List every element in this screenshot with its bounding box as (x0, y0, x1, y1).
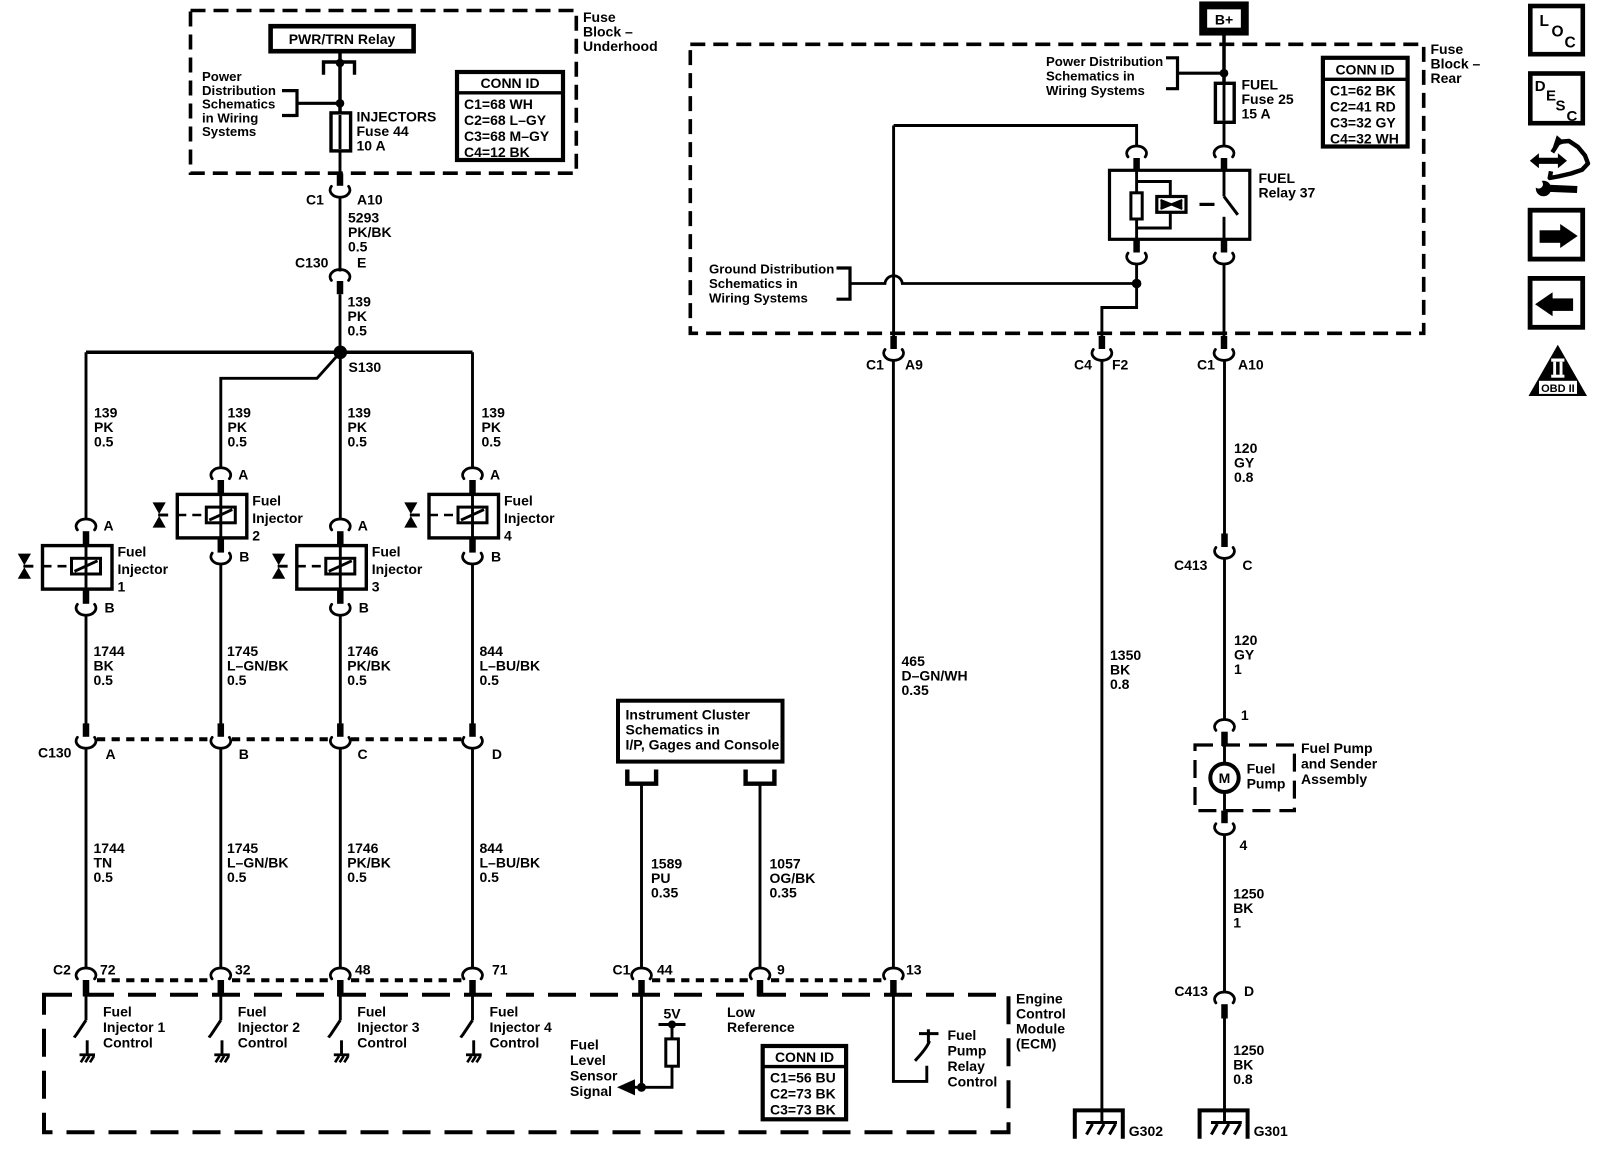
svg-text:0.8: 0.8 (1234, 469, 1254, 485)
connector injector 4 pin A (463, 466, 501, 494)
svg-text:Engine: Engine (1016, 991, 1063, 1007)
wire C130 A down (85, 748, 88, 969)
svg-text:C2=41 RD: C2=41 RD (1330, 98, 1396, 114)
label INJECTORS Fuse 44 10 A (357, 109, 437, 154)
ground G302 (1075, 1110, 1163, 1139)
svg-text:Power: Power (202, 69, 242, 84)
label C2 row (53, 962, 508, 978)
wire injector 3 B down (339, 615, 342, 724)
svg-text:B: B (239, 746, 249, 762)
svg-text:D: D (1535, 78, 1546, 95)
connector C1 A10 rear (1197, 336, 1264, 373)
connector relay coil pin bottom (1127, 239, 1147, 264)
svg-text:CONN ID: CONN ID (480, 75, 539, 91)
label Fuel Injector 3 Control (357, 1004, 419, 1051)
wire relay coil to junction (1135, 264, 1138, 284)
connector C2 72 (76, 968, 96, 997)
connector row C130 dashed line (97, 737, 462, 741)
svg-text:Module: Module (1016, 1021, 1065, 1037)
svg-text:Control: Control (238, 1035, 288, 1051)
wire injector 4 B down (471, 564, 474, 724)
connector injector 2 pin B (211, 538, 250, 564)
relay operator dashed link (1200, 203, 1220, 206)
wire label 139 PK 0.5 branch 1 (94, 405, 118, 450)
relay operator X-box (1157, 197, 1186, 213)
svg-text:13: 13 (906, 962, 922, 978)
svg-text:10 A: 10 A (357, 138, 386, 154)
wire branch injector 1 (85, 352, 88, 519)
svg-text:Systems: Systems (202, 124, 256, 139)
wire C130 B down (219, 748, 222, 969)
svg-text:Assembly: Assembly (1301, 771, 1367, 787)
wire fuse 44 down to C1 (339, 151, 342, 174)
svg-text:1: 1 (118, 579, 126, 595)
svg-text:in Wiring: in Wiring (202, 110, 258, 125)
connector C2 48 (330, 968, 350, 997)
wire S130 bus horizontal (86, 351, 473, 355)
connector C130 C (330, 723, 350, 748)
ground fuel injector 4 driver (466, 1055, 482, 1063)
resistor pull-up (666, 1039, 679, 1066)
svg-text:D: D (492, 746, 502, 762)
svg-text:Reference: Reference (727, 1019, 795, 1035)
wire label 844 L-BU/BK 0.5 (480, 643, 541, 688)
ground G301 (1200, 1110, 1288, 1139)
icon back arrow box (1530, 278, 1583, 327)
svg-text:Control: Control (948, 1074, 998, 1090)
fuel injector 1 control driver (74, 997, 87, 1054)
wire label 1746 PK/BK 0.5 lower (347, 840, 391, 885)
connector relay switch pin top (1214, 146, 1234, 170)
label Engine Control Module (ECM) (1016, 991, 1066, 1052)
connector injector 1 pin A (76, 518, 114, 546)
fuel injector 3 (272, 544, 423, 595)
wire branch injector 4 (471, 352, 474, 468)
fuel pump relay control driver (893, 997, 938, 1082)
wire C130 D down (471, 748, 474, 969)
svg-text:Injector 3: Injector 3 (357, 1019, 419, 1035)
svg-text:Fuel: Fuel (504, 493, 533, 509)
wire label 1350 BK 0.8 (1110, 647, 1141, 692)
svg-text:F2: F2 (1112, 357, 1129, 373)
wire label 1744 TN 0.5 (94, 840, 125, 885)
svg-text:Pump: Pump (1247, 776, 1286, 792)
connector C130 D (463, 723, 483, 748)
svg-text:0.5: 0.5 (94, 434, 114, 450)
junction dot fuse feed (336, 99, 345, 108)
wire label 1745 L-GN/BK 0.5 lower (227, 840, 288, 885)
node B+ battery feed (1203, 5, 1245, 31)
page bracket under PWR/TRN Relay (324, 62, 355, 75)
junction dot fuel level node (637, 1083, 646, 1092)
svg-text:Relay: Relay (948, 1058, 986, 1074)
connector row C2 dashed line (97, 978, 462, 982)
wire A9 down to 13 (892, 360, 895, 969)
svg-text:Schematics in: Schematics in (709, 276, 798, 291)
wire label 1744 BK 0.5 (94, 643, 125, 688)
CONN ID table rear (1323, 58, 1408, 147)
page bracket instrument cluster left (627, 770, 656, 784)
relay PWR/TRN Relay box (271, 26, 414, 51)
wire A10 down to C413 C (1223, 360, 1226, 534)
dashed box Fuse Block - Rear (690, 44, 1423, 333)
junction dot B+ feed (1220, 69, 1229, 78)
svg-text:0.5: 0.5 (480, 869, 500, 885)
wire cluster right to 9 (759, 784, 762, 969)
wire label 5293 PK/BK 0.5 (348, 210, 392, 255)
connector C1 A10 (306, 174, 383, 208)
svg-text:Fuel: Fuel (1247, 761, 1276, 777)
svg-text:0.35: 0.35 (902, 682, 929, 698)
svg-text:Injector 4: Injector 4 (490, 1019, 552, 1035)
svg-text:B: B (105, 600, 115, 616)
svg-text:Ground Distribution: Ground Distribution (709, 262, 834, 277)
svg-text:32: 32 (235, 962, 251, 978)
CONN ID table underhood (457, 72, 563, 160)
svg-text:0.35: 0.35 (651, 885, 678, 901)
svg-text:Fuel: Fuel (948, 1027, 977, 1043)
svg-text:CONN ID: CONN ID (1335, 62, 1394, 78)
svg-text:G302: G302 (1129, 1123, 1163, 1139)
svg-text:0.5: 0.5 (348, 239, 368, 255)
wire injector 2 B down (219, 564, 222, 724)
icon OBD II triangle (1529, 345, 1588, 396)
svg-text:OBD II: OBD II (1541, 383, 1575, 395)
wire relay coil feed (894, 126, 1137, 147)
label Low Reference (727, 1004, 795, 1035)
fuel injector 2 control driver (209, 997, 222, 1054)
svg-text:Relay 37: Relay 37 (1259, 185, 1316, 201)
svg-text:A10: A10 (1238, 357, 1264, 373)
connector relay coil pin top (1127, 146, 1147, 170)
svg-text:0.35: 0.35 (770, 885, 797, 901)
svg-text:C1: C1 (1197, 357, 1215, 373)
svg-text:L: L (1540, 13, 1549, 30)
wire C413 D down to G301 (1223, 1019, 1226, 1123)
svg-text:A: A (238, 466, 248, 482)
wire C130 to S130 (339, 294, 342, 352)
wire label 120 GY 1 (1234, 632, 1258, 677)
svg-text:C4=12 BK: C4=12 BK (464, 144, 530, 160)
svg-text:Fuel: Fuel (118, 544, 147, 560)
svg-text:0.5: 0.5 (480, 672, 500, 688)
svg-text:0.5: 0.5 (348, 434, 368, 450)
svg-text:C4: C4 (1074, 357, 1092, 373)
5V supply tap (659, 1021, 686, 1039)
svg-text:Injector 2: Injector 2 (238, 1019, 300, 1035)
relay FUEL Relay 37 box (1110, 170, 1316, 239)
svg-text:C: C (358, 746, 368, 762)
svg-text:Fuel: Fuel (490, 1004, 519, 1020)
connector C130 B (211, 723, 231, 748)
wire pump 4 down to C413 D (1223, 834, 1226, 992)
wire label 120 GY 0.8 (1234, 440, 1258, 485)
wire C1 to C130 (339, 197, 342, 272)
wire label 1745 L-GN/BK 0.5 (227, 643, 288, 688)
svg-text:0.5: 0.5 (94, 869, 114, 885)
wire relay switch down to C1 A10 (1223, 264, 1226, 337)
wire branch injector 3 (339, 352, 342, 519)
svg-text:0.5: 0.5 (94, 672, 114, 688)
svg-text:(ECM): (ECM) (1016, 1036, 1056, 1052)
svg-text:Control: Control (490, 1035, 540, 1051)
svg-text:C1=68 WH: C1=68 WH (464, 96, 533, 112)
label Fuel Injector 2 Control (238, 1004, 300, 1051)
connector injector 1 pin B (76, 589, 115, 615)
svg-text:A: A (104, 518, 114, 534)
wire label 465 D-GN/WH 0.35 (902, 653, 968, 698)
svg-text:0.5: 0.5 (347, 869, 367, 885)
ground fuel injector 1 driver (80, 1055, 96, 1063)
svg-text:Fuel: Fuel (357, 1004, 386, 1020)
icon forward arrow box (1530, 210, 1583, 259)
svg-text:Control: Control (357, 1035, 407, 1051)
svg-text:PWR/TRN Relay: PWR/TRN Relay (289, 31, 396, 47)
svg-text:CONN ID: CONN ID (775, 1049, 834, 1065)
label Fuel Pump and Sender Assembly (1301, 740, 1378, 787)
ground fuel injector 2 driver (214, 1055, 230, 1063)
connector C130 E (295, 255, 366, 295)
svg-text:A: A (106, 746, 116, 762)
svg-text:0.8: 0.8 (1110, 676, 1130, 692)
svg-text:E: E (357, 255, 366, 271)
icon DESC box (1530, 74, 1583, 126)
connector relay switch pin bottom (1214, 239, 1234, 264)
svg-text:48: 48 (355, 962, 371, 978)
connector C413 D (1174, 983, 1254, 1019)
splice S130 (334, 346, 382, 376)
svg-text:1: 1 (1233, 915, 1241, 931)
svg-text:A9: A9 (905, 357, 923, 373)
svg-text:4: 4 (1240, 837, 1248, 853)
label Fuel Injector 4 Control (490, 1004, 552, 1051)
svg-text:Schematics: Schematics (202, 97, 275, 112)
note Ground Distribution Schematics (709, 262, 834, 306)
svg-text:Wiring Systems: Wiring Systems (709, 291, 808, 306)
svg-text:Rear: Rear (1431, 70, 1463, 86)
label C130 row (38, 745, 502, 763)
wire 44 to sensor signal node (640, 997, 643, 1088)
svg-text:5V: 5V (664, 1006, 682, 1022)
fuel injector 2 (153, 493, 304, 544)
svg-text:Injector: Injector (252, 510, 303, 526)
svg-text:B+: B+ (1215, 11, 1233, 27)
connector fuel pump 4 (1215, 811, 1248, 853)
connector C413 C (1174, 534, 1253, 574)
svg-text:Control: Control (103, 1035, 153, 1051)
relay switch (1224, 170, 1238, 239)
label Fuel Pump (1247, 761, 1286, 792)
svg-text:15 A: 15 A (1242, 106, 1271, 122)
wire label 1250 BK 1 (1233, 886, 1264, 931)
svg-text:I/P, Gages and Console: I/P, Gages and Console (626, 737, 780, 753)
label FUEL Fuse 25 15 A (1242, 77, 1294, 122)
svg-text:C1: C1 (613, 962, 631, 978)
wire label 139 PK 0.5 branch 4 (482, 405, 506, 450)
connector C130 A (76, 723, 96, 748)
wire label 139 PK 0.5 branch 2 (228, 405, 252, 450)
connector C1 A9 (866, 336, 923, 373)
svg-text:C130: C130 (38, 745, 72, 761)
dashed box Fuse Block - Underhood (191, 11, 577, 174)
svg-text:44: 44 (657, 962, 673, 978)
connector 9 (750, 968, 770, 997)
svg-text:Sensor: Sensor (570, 1068, 618, 1084)
svg-text:C1: C1 (866, 357, 884, 373)
svg-text:B: B (359, 600, 369, 616)
svg-text:9: 9 (777, 962, 785, 978)
svg-text:C: C (1242, 557, 1252, 573)
label C1 44 9 13 row (613, 962, 922, 978)
svg-text:C2=68 L–GY: C2=68 L–GY (464, 112, 547, 128)
svg-text:Distribution: Distribution (202, 83, 276, 98)
svg-text:Fuel: Fuel (252, 493, 281, 509)
svg-text:4: 4 (504, 528, 512, 544)
wire left feed down to C1 A9 (892, 126, 895, 338)
wire label 1746 PK/BK 0.5 (347, 643, 391, 688)
svg-text:Injector: Injector (118, 561, 169, 577)
svg-text:O: O (1552, 24, 1564, 41)
svg-text:S: S (1556, 98, 1566, 115)
svg-text:C2: C2 (53, 962, 71, 978)
svg-text:0.5: 0.5 (482, 434, 502, 450)
connector injector 3 pin B (330, 589, 369, 615)
note Power Distribution Schematics in Wiring Systems (202, 69, 276, 139)
svg-text:S130: S130 (349, 359, 382, 375)
svg-text:Pump: Pump (948, 1043, 987, 1059)
svg-text:C1: C1 (306, 192, 324, 208)
svg-text:C413: C413 (1174, 557, 1208, 573)
fuel injector 4 (404, 493, 555, 544)
connector C1 44 (632, 968, 652, 997)
connector 13 (884, 968, 904, 997)
svg-text:Underhood: Underhood (583, 38, 658, 54)
svg-text:Power Distribution: Power Distribution (1046, 54, 1163, 69)
svg-text:C3=73 BK: C3=73 BK (770, 1102, 836, 1118)
wire label 844 L-BU/BK 0.5 lower (480, 840, 541, 885)
svg-text:C: C (1567, 108, 1578, 125)
bracket Ground Distribution (837, 266, 851, 300)
svg-text:0.8: 0.8 (1233, 1071, 1253, 1087)
wire label 1057 OG/BK 0.35 (770, 856, 816, 901)
svg-text:Control: Control (1016, 1006, 1066, 1022)
fuel injector 1 (18, 544, 169, 595)
icon LOC box (1530, 6, 1583, 54)
wire branch injector 2 (221, 352, 340, 468)
wire C130 C down (339, 748, 342, 969)
connector C4 F2 (1074, 336, 1129, 373)
bracket Power Distribution rear (1166, 56, 1224, 90)
svg-text:C3=32 GY: C3=32 GY (1330, 114, 1396, 130)
relay coil (1131, 170, 1170, 239)
wire F2 down to G302 (1100, 360, 1103, 1123)
svg-text:C1=62 BK: C1=62 BK (1330, 82, 1396, 98)
note Power Distribution Schematics rear (1046, 54, 1163, 98)
connector C2 71 (463, 968, 483, 997)
svg-text:2: 2 (252, 528, 260, 544)
label Fuse Block - Underhood (583, 9, 658, 54)
svg-text:0.5: 0.5 (228, 434, 248, 450)
dashed box Engine Control Module ECM (44, 995, 1009, 1133)
wire fuse 25 to relay switch pin (1223, 122, 1226, 146)
dashed box Fuel Pump and Sender Assembly (1195, 745, 1294, 811)
icon jump wrench (1530, 135, 1588, 196)
connector injector 4 pin B (463, 538, 502, 564)
svg-text:C130: C130 (295, 255, 329, 271)
svg-text:Schematics in: Schematics in (626, 722, 720, 738)
wire C413 C down to pump 1 (1223, 558, 1226, 720)
svg-text:Fuel: Fuel (570, 1037, 599, 1053)
svg-text:A10: A10 (357, 192, 383, 208)
svg-text:Injector: Injector (504, 510, 555, 526)
wire label 139 PK 0.5 branch 3 (348, 405, 372, 450)
svg-text:3: 3 (372, 579, 380, 595)
arrow fuel level sensor signal (617, 1079, 642, 1095)
svg-text:Level: Level (570, 1052, 606, 1068)
svg-text:C: C (1565, 35, 1576, 52)
svg-text:0.5: 0.5 (347, 672, 367, 688)
svg-text:Signal: Signal (570, 1083, 612, 1099)
svg-text:Fuel Pump: Fuel Pump (1301, 740, 1373, 756)
svg-text:G301: G301 (1254, 1123, 1288, 1139)
svg-text:Injector: Injector (372, 561, 423, 577)
wire B+ down to fuse 25 (1222, 35, 1226, 83)
svg-text:Fuel: Fuel (238, 1004, 267, 1020)
svg-text:0.5: 0.5 (227, 869, 247, 885)
wire label 1589 PU 0.35 (651, 856, 682, 901)
CONN ID table ECM (763, 1046, 846, 1119)
fuel injector 4 control driver (461, 997, 474, 1054)
wire PWR/TRN relay to fuse 44 (338, 51, 342, 113)
svg-text:A: A (490, 466, 500, 482)
svg-text:Fuel: Fuel (103, 1004, 132, 1020)
connector row C1 ECM dashed line (652, 978, 882, 982)
svg-text:C413: C413 (1174, 983, 1208, 999)
wire label 139 PK 0.5 main feed (348, 294, 372, 339)
ground fuel injector 3 driver (334, 1055, 350, 1063)
svg-text:C1=56 BU: C1=56 BU (770, 1070, 836, 1086)
wire resistor to node (640, 1066, 672, 1087)
label Fuel Level Sensor Signal (570, 1037, 618, 1100)
svg-text:C4=32 WH: C4=32 WH (1330, 130, 1399, 146)
svg-text:C3=68 M–GY: C3=68 M–GY (464, 128, 550, 144)
box Instrument Cluster Schematics (618, 701, 783, 762)
motor fuel pump (1210, 746, 1238, 811)
wire injector 1 B down (85, 615, 88, 724)
svg-text:Fuel: Fuel (372, 544, 401, 560)
fuel injector 3 control driver (329, 997, 342, 1054)
svg-text:C2=73 BK: C2=73 BK (770, 1086, 836, 1102)
svg-text:B: B (491, 548, 501, 564)
connector C2 32 (211, 968, 231, 997)
svg-text:0.5: 0.5 (348, 323, 368, 339)
connector injector 2 pin A (211, 466, 249, 494)
svg-text:Injector 1: Injector 1 (103, 1019, 165, 1035)
fuse Fuse 25 (1215, 83, 1234, 122)
junction dot ground jog (1132, 279, 1142, 289)
junction dot at relay bracket (336, 59, 345, 68)
svg-text:M: M (1219, 770, 1231, 786)
label Fuel Injector 1 Control (103, 1004, 165, 1051)
svg-text:B: B (239, 548, 249, 564)
label Fuel Pump Relay Control (948, 1027, 998, 1090)
svg-text:D: D (1244, 983, 1254, 999)
wire cluster left to C1 44 (640, 784, 643, 969)
svg-text:0.5: 0.5 (227, 672, 247, 688)
svg-text:1: 1 (1234, 661, 1242, 677)
svg-text:and Sender: and Sender (1301, 756, 1378, 772)
svg-text:Instrument Cluster: Instrument Cluster (626, 707, 751, 723)
